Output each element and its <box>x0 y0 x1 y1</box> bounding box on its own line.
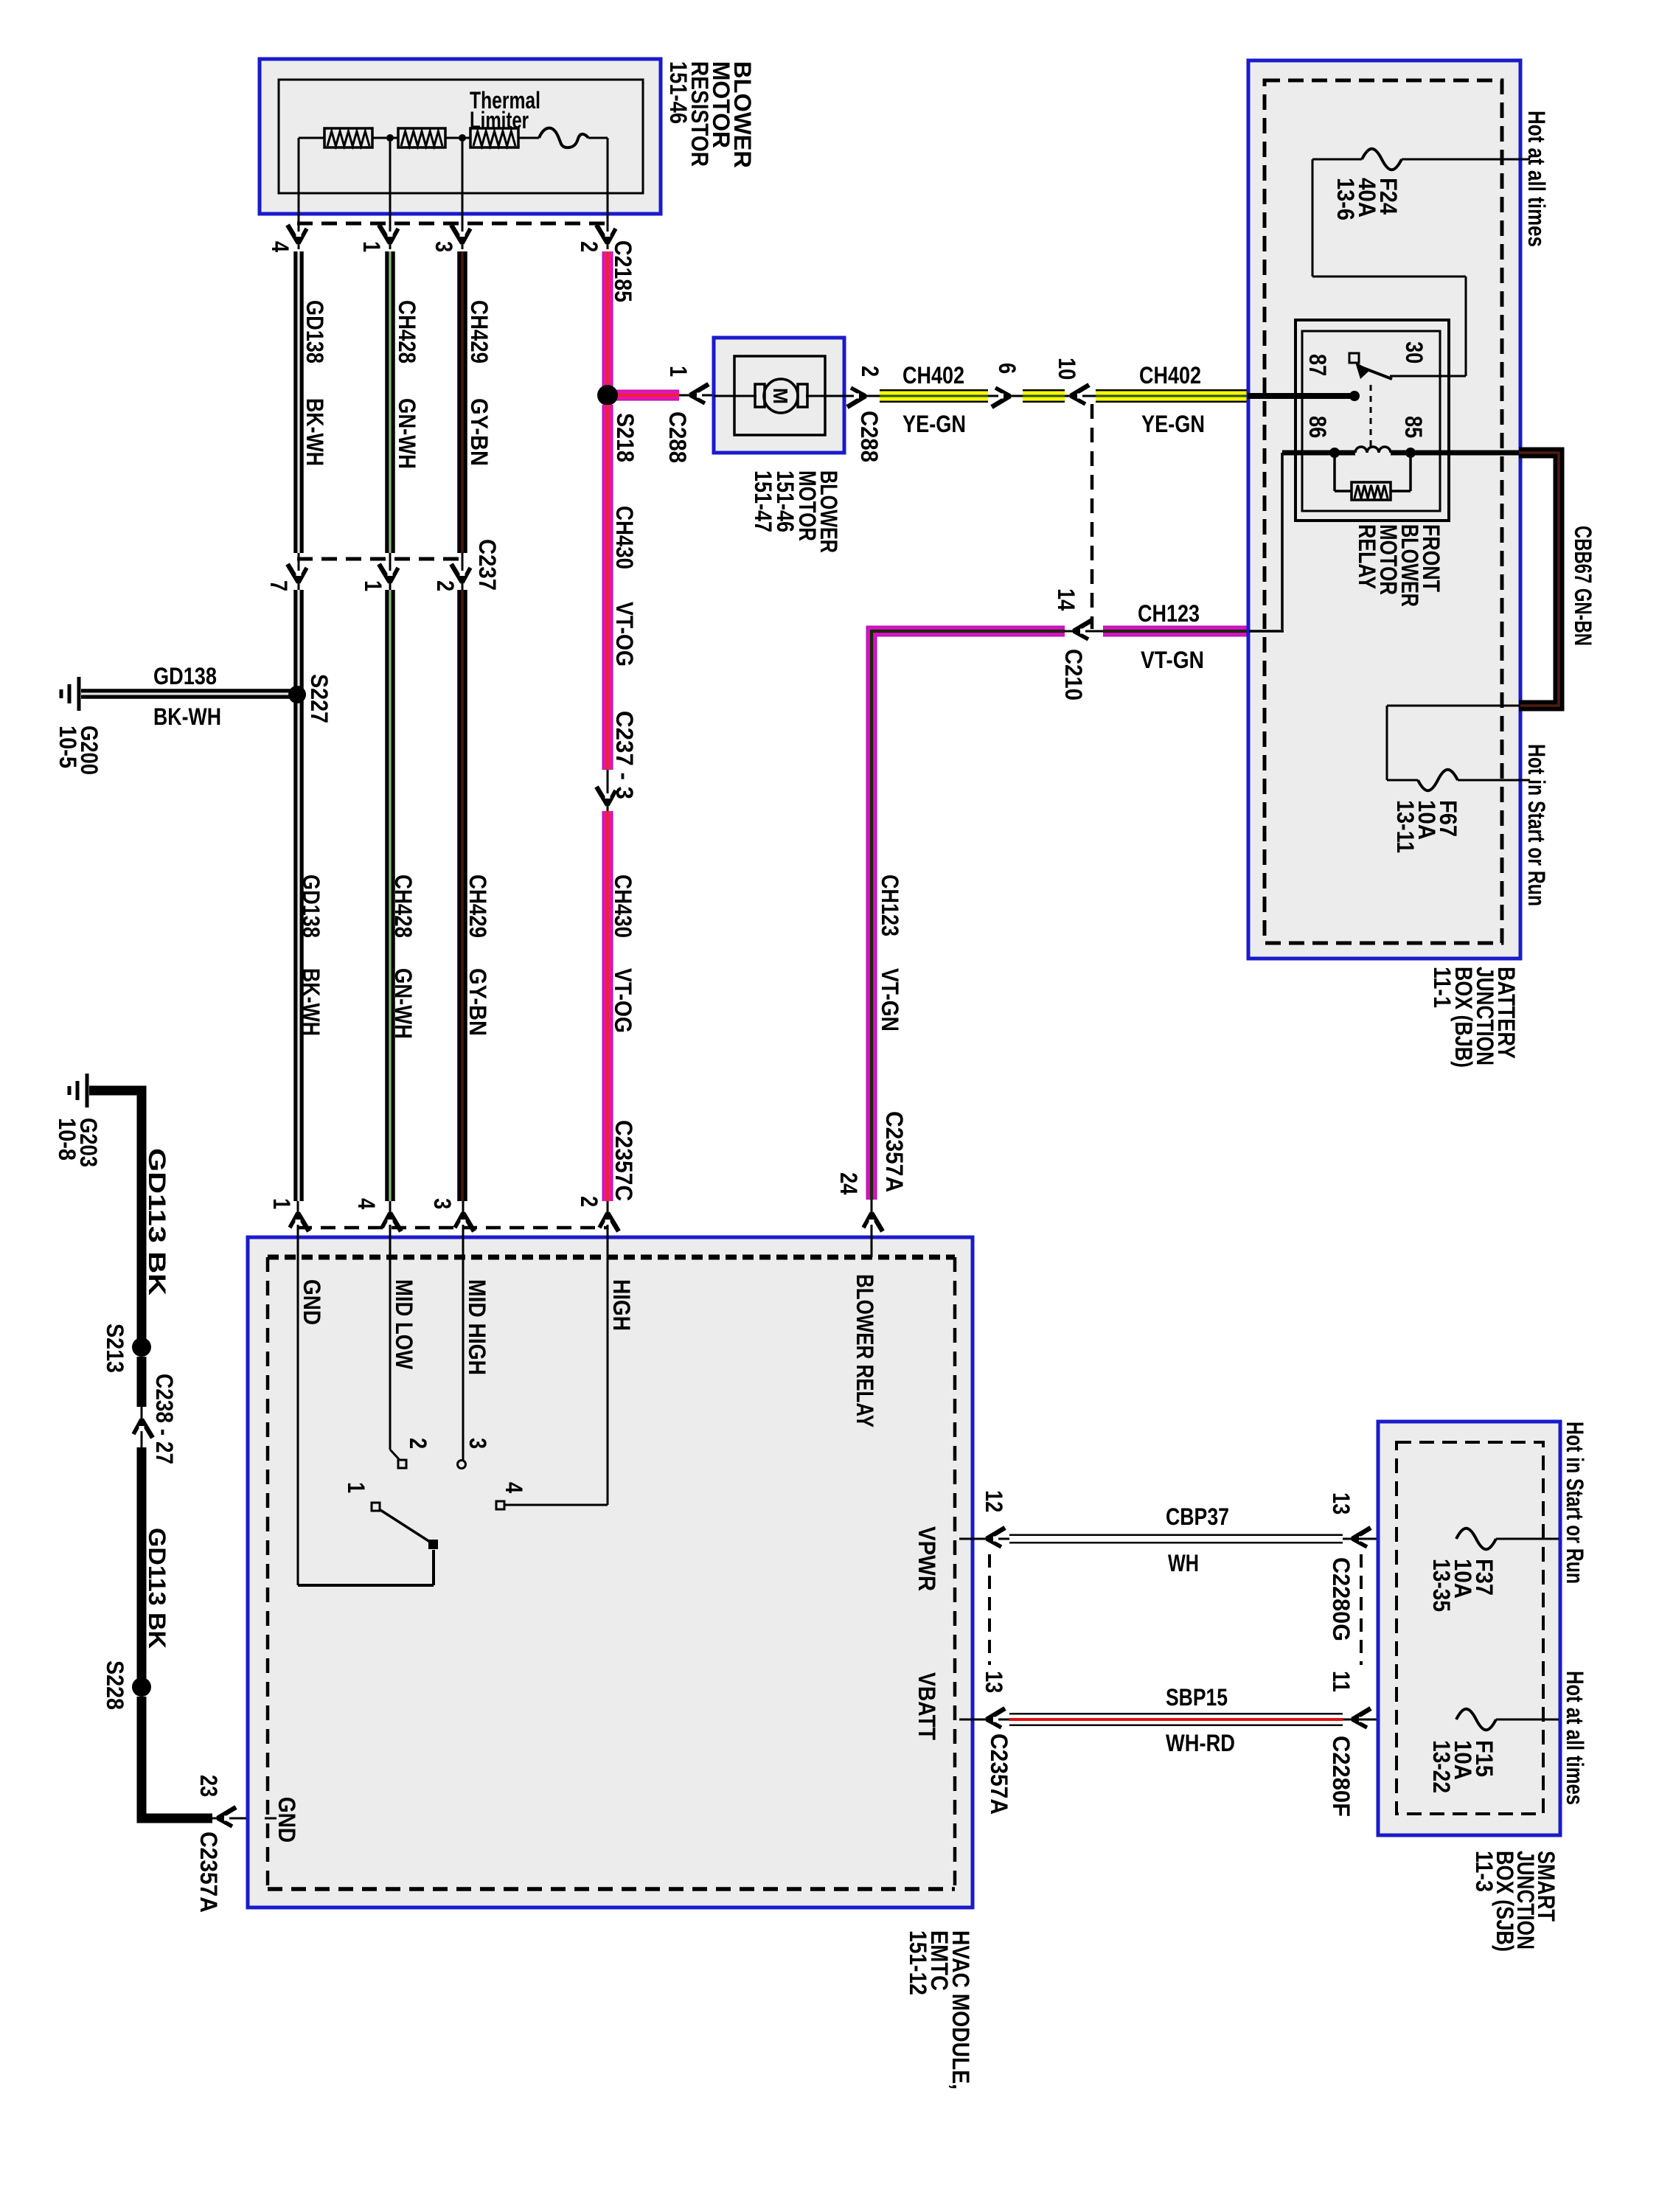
wire CH402 YE-GN segment 1 <box>880 389 988 403</box>
svg-text:6: 6 <box>994 363 1020 374</box>
svg-text:Hot at all times: Hot at all times <box>1523 111 1550 247</box>
switch arm <box>380 1510 432 1543</box>
svg-text:2: 2 <box>576 241 602 252</box>
svg-text:10: 10 <box>1054 358 1080 380</box>
wire into blower motor <box>679 394 733 397</box>
svg-text:CH429: CH429 <box>465 874 491 938</box>
connector C237 dashed line <box>297 557 465 561</box>
svg-text:BK-WH: BK-WH <box>302 398 328 466</box>
svg-text:1: 1 <box>343 1482 369 1493</box>
splice S218 <box>597 385 618 406</box>
wire GD113 BK from G203 <box>89 1091 142 1347</box>
svg-text:86: 86 <box>1304 416 1331 438</box>
svg-text:1: 1 <box>665 366 692 377</box>
wire GD113 BK vertical lower <box>137 1447 147 1687</box>
HVAC inner dashed top <box>268 1255 955 1260</box>
wire CH123 VT-GN right segment <box>1103 626 1248 637</box>
C210 pin 14 arrow <box>1074 620 1092 639</box>
svg-text:CH428: CH428 <box>394 300 420 364</box>
svg-text:GD138: GD138 <box>153 663 217 689</box>
wire GD113 to HVAC <box>142 1697 212 1818</box>
splice S213 <box>132 1338 151 1357</box>
svg-text:GND: GND <box>299 1279 325 1325</box>
svg-text:11-1: 11-1 <box>1429 967 1455 1008</box>
battery junction box (BJB) <box>1248 60 1520 959</box>
wire fuse F67 loop <box>1387 705 1520 707</box>
svg-text:CH429: CH429 <box>466 300 493 364</box>
svg-text:C210: C210 <box>1060 649 1087 700</box>
fuse F24 40A <box>1362 149 1402 170</box>
wire at C237-3 <box>607 770 609 811</box>
svg-text:C2357A: C2357A <box>195 1832 222 1913</box>
svg-text:CBP37: CBP37 <box>1166 1503 1229 1530</box>
svg-text:GD138: GD138 <box>298 874 324 938</box>
svg-text:CH428: CH428 <box>390 874 417 938</box>
resistor R1 <box>324 128 372 147</box>
motor M symbol <box>764 379 798 413</box>
svg-text:11: 11 <box>1328 1671 1354 1692</box>
svg-text:YE-GN: YE-GN <box>902 411 966 437</box>
svg-text:4: 4 <box>353 1198 380 1209</box>
svg-text:13-22: 13-22 <box>1428 1740 1455 1793</box>
wire motor to CH402 <box>844 395 880 397</box>
resistor R3 <box>470 128 518 147</box>
C2185 pin 2 arrow <box>597 225 616 243</box>
svg-text:BLOWER RELAY: BLOWER RELAY <box>852 1274 878 1427</box>
wire SBP15 WH-RD <box>1009 1713 1343 1726</box>
svg-text:Hot in Start or Run: Hot in Start or Run <box>1562 1422 1588 1584</box>
svg-text:2: 2 <box>576 1196 602 1207</box>
wire CH429 GY-BN upper <box>457 251 467 553</box>
relay coil <box>1296 451 1355 456</box>
C2357A pin 13 arrow <box>987 1708 1005 1728</box>
svg-text:MID LOW: MID LOW <box>391 1279 417 1370</box>
C237 pin 10 arrow <box>1071 385 1089 404</box>
svg-text:3: 3 <box>429 1198 456 1209</box>
C2185 pin 1 arrow <box>379 225 398 243</box>
wire VPWR stub <box>959 1538 1009 1540</box>
C237 pin 1 arrow <box>379 564 398 582</box>
wire through motor <box>714 395 757 397</box>
svg-text:GN-WH: GN-WH <box>394 398 420 469</box>
thermal limiter <box>539 128 588 147</box>
C237 pin 3 arrow <box>597 787 616 805</box>
svg-text:VT-OG: VT-OG <box>611 602 638 667</box>
C2357A pin 12 arrow <box>987 1528 1005 1547</box>
svg-text:C2185: C2185 <box>610 240 636 302</box>
svg-text:CH123: CH123 <box>1138 600 1200 627</box>
wire VBATT stub <box>959 1719 1009 1721</box>
svg-text:3: 3 <box>431 241 457 252</box>
C237 pin 7 arrow <box>288 564 307 582</box>
svg-text:C2357A: C2357A <box>881 1111 908 1192</box>
wire relay 86 to CH123 <box>1282 451 1296 456</box>
svg-text:13: 13 <box>1328 1492 1354 1514</box>
svg-text:S228: S228 <box>102 1660 128 1710</box>
wire blower relay entry <box>871 1200 873 1257</box>
svg-text:RELAY: RELAY <box>1354 524 1380 589</box>
connector C237/C210 dashed line <box>1091 404 1094 629</box>
wire fuse F24 feed <box>1312 159 1362 161</box>
C288 pin 1 arrow <box>690 384 709 403</box>
HVAC module EMTC box <box>248 1237 973 1907</box>
svg-text:GY-BN: GY-BN <box>466 398 493 466</box>
splice S227 <box>288 686 306 703</box>
relay switch arm <box>1357 366 1392 379</box>
svg-text:M: M <box>769 388 792 404</box>
svg-text:13-35: 13-35 <box>1428 1559 1455 1612</box>
wire CH402 YE-GN segment 2 <box>1023 389 1065 403</box>
svg-text:SBP15: SBP15 <box>1166 1684 1228 1711</box>
svg-text:85: 85 <box>1400 416 1427 438</box>
svg-text:12: 12 <box>981 1490 1007 1512</box>
splice S228 <box>132 1677 151 1697</box>
C288 pin 2 arrow <box>847 388 866 407</box>
wire GD138 BK-WH to ground <box>81 689 297 699</box>
wire GD138 BK-WH upper <box>293 251 304 553</box>
C2357C pin 3 arrow <box>455 1213 474 1231</box>
svg-text:4: 4 <box>501 1482 527 1493</box>
svg-text:VT-OG: VT-OG <box>610 968 636 1033</box>
relay coil left node <box>1329 448 1340 458</box>
C2357C pin 1 arrow <box>290 1213 309 1231</box>
svg-text:S227: S227 <box>306 674 333 723</box>
relay 87 terminal <box>1349 391 1360 401</box>
svg-text:C2280G: C2280G <box>1328 1557 1354 1641</box>
svg-text:S213: S213 <box>102 1324 128 1373</box>
C2185 pin 3 arrow <box>451 225 470 243</box>
connector C2357C dashed line <box>297 1226 608 1230</box>
C2357C pin 2 arrow <box>599 1213 619 1231</box>
wire GD113 below S213 <box>137 1357 147 1407</box>
relay actuator dashed link <box>1370 385 1372 447</box>
C2280G pin 13 arrow <box>1352 1528 1371 1547</box>
svg-text:CH402: CH402 <box>1139 362 1201 389</box>
C237 pin 2 arrow <box>451 564 470 582</box>
svg-text:VT-GN: VT-GN <box>1141 647 1204 673</box>
svg-text:14: 14 <box>1053 588 1079 611</box>
svg-text:WH: WH <box>1168 1550 1199 1576</box>
wire CBP37 WH <box>1009 1534 1343 1544</box>
front blower motor relay <box>1295 320 1449 521</box>
wire CH428 GN-WH lower <box>385 590 395 1201</box>
svg-text:2: 2 <box>405 1438 431 1449</box>
svg-text:VPWR: VPWR <box>914 1526 940 1591</box>
svg-text:CH430: CH430 <box>610 874 636 938</box>
svg-text:CBB67 GN-BN: CBB67 GN-BN <box>1570 526 1596 646</box>
fuse F15 10A <box>1456 1709 1496 1731</box>
wire CH430 stub to motor <box>608 390 679 401</box>
svg-text:CH430: CH430 <box>611 506 638 569</box>
wire CBB67 GN-BN <box>1519 453 1559 706</box>
connector C2280 dashed line <box>1360 1554 1363 1665</box>
svg-text:C237 - 3: C237 - 3 <box>611 711 638 799</box>
svg-text:2: 2 <box>857 366 883 377</box>
svg-text:WH-RD: WH-RD <box>1166 1730 1235 1756</box>
svg-text:Limiter: Limiter <box>470 107 529 133</box>
ground G203 <box>69 1074 87 1107</box>
wire resistor pin drops <box>298 138 300 249</box>
svg-text:BK-WH: BK-WH <box>153 703 221 730</box>
svg-text:GD113 BK: GD113 BK <box>144 1148 170 1295</box>
svg-text:BK-WH: BK-WH <box>298 968 324 1036</box>
wire relay pin 30 <box>1390 375 1466 378</box>
connector C2357A dashed line <box>988 1554 991 1665</box>
svg-text:2: 2 <box>432 580 459 591</box>
wire GD138 BK-WH lower <box>293 590 304 1201</box>
HVAC blower switch <box>297 1239 299 1585</box>
wire GND pin 23 <box>265 1818 276 1820</box>
svg-text:30: 30 <box>1401 341 1427 364</box>
svg-text:GY-BN: GY-BN <box>465 968 491 1036</box>
wire CH428 GN-WH upper <box>385 251 395 553</box>
svg-text:GD113 BK: GD113 BK <box>144 1528 170 1649</box>
resistor R2 <box>398 128 445 147</box>
HVAC inner dashed left <box>266 1257 270 1889</box>
svg-text:13-6: 13-6 <box>1332 178 1359 220</box>
C2357A pin 23 arrow <box>218 1807 236 1826</box>
blower motor 151-46 151-47 box <box>714 338 844 453</box>
svg-text:13-11: 13-11 <box>1392 800 1419 853</box>
svg-text:1: 1 <box>360 580 386 591</box>
svg-text:87: 87 <box>1304 354 1331 376</box>
relay coil right node <box>1405 448 1416 458</box>
HVAC inner dashed right <box>953 1257 957 1889</box>
svg-text:10-5: 10-5 <box>55 726 81 768</box>
node resistor tap 3 <box>459 134 466 142</box>
svg-text:151-47: 151-47 <box>750 470 776 532</box>
svg-text:151-46: 151-46 <box>665 61 692 124</box>
svg-text:C2280F: C2280F <box>1328 1736 1354 1817</box>
svg-text:VT-GN: VT-GN <box>877 968 903 1032</box>
svg-text:YE-GN: YE-GN <box>1141 411 1205 437</box>
C2357A pin 24 arrow <box>863 1213 883 1231</box>
ground G200 <box>61 677 79 711</box>
svg-text:4: 4 <box>267 241 293 252</box>
svg-text:HIGH: HIGH <box>608 1279 635 1331</box>
fuse F37 10A <box>1456 1528 1496 1550</box>
fuse F67 10A <box>1418 770 1458 791</box>
node resistor tap 1 <box>386 134 394 142</box>
svg-text:7: 7 <box>265 580 292 591</box>
wire CH430 VT-OG from resistor <box>602 251 613 392</box>
svg-text:CH123: CH123 <box>877 874 903 936</box>
wire CH402 to relay 87 <box>1248 393 1355 399</box>
svg-text:10-8: 10-8 <box>54 1118 80 1161</box>
C237 pin 6 arrow <box>992 388 1010 407</box>
svg-text:GND: GND <box>274 1797 300 1843</box>
svg-text:Hot at all times: Hot at all times <box>1562 1671 1588 1805</box>
svg-text:11-3: 11-3 <box>1471 1851 1498 1892</box>
svg-text:GD138: GD138 <box>302 300 328 364</box>
connector C2185 dashed line <box>297 222 610 226</box>
smart junction box (SJB) <box>1378 1422 1560 1835</box>
svg-text:1: 1 <box>358 241 385 252</box>
svg-text:C288: C288 <box>856 411 883 462</box>
svg-text:CH402: CH402 <box>902 362 964 389</box>
svg-text:3: 3 <box>465 1438 491 1449</box>
svg-text:24: 24 <box>835 1172 862 1194</box>
wire at C238 <box>141 1407 143 1447</box>
svg-text:C237: C237 <box>474 539 501 591</box>
resistor chain wire <box>299 137 324 139</box>
C2280F pin 11 arrow <box>1352 1708 1371 1728</box>
HVAC inner dashed bottom <box>268 1887 955 1891</box>
svg-text:S218: S218 <box>612 413 639 462</box>
svg-text:Hot in Start or Run: Hot in Start or Run <box>1523 744 1550 906</box>
svg-text:1: 1 <box>268 1198 295 1209</box>
svg-text:C238 - 27: C238 - 27 <box>151 1374 178 1464</box>
svg-text:VBATT: VBATT <box>914 1672 940 1740</box>
relay parallel resistor <box>1333 453 1336 491</box>
wire into HVAC GND <box>212 1818 265 1820</box>
svg-text:C2357C: C2357C <box>611 1120 637 1201</box>
C2357C pin 4 arrow <box>382 1213 401 1231</box>
svg-text:GN-WH: GN-WH <box>390 968 417 1039</box>
wire CH123 VT-GN <box>872 631 1065 1200</box>
svg-text:C2357A: C2357A <box>986 1733 1012 1815</box>
C2185 pin 4 arrow <box>288 225 307 243</box>
svg-text:MID HIGH: MID HIGH <box>464 1279 490 1375</box>
C238 pin 27 arrow <box>133 1419 153 1438</box>
wire CH430 VT-OG lower <box>602 811 613 1201</box>
wire CH429 GY-BN lower <box>457 590 467 1201</box>
wire CH430 VT-OG middle <box>602 405 613 770</box>
svg-text:23: 23 <box>195 1775 222 1797</box>
svg-text:151-12: 151-12 <box>905 1930 931 1995</box>
svg-text:13: 13 <box>981 1671 1007 1693</box>
relay switch contact <box>1349 353 1359 363</box>
wire CH402 YE-GN segment 3 <box>1096 389 1248 403</box>
blower motor resistor 151-46 box <box>260 59 661 214</box>
svg-text:C288: C288 <box>664 411 691 463</box>
